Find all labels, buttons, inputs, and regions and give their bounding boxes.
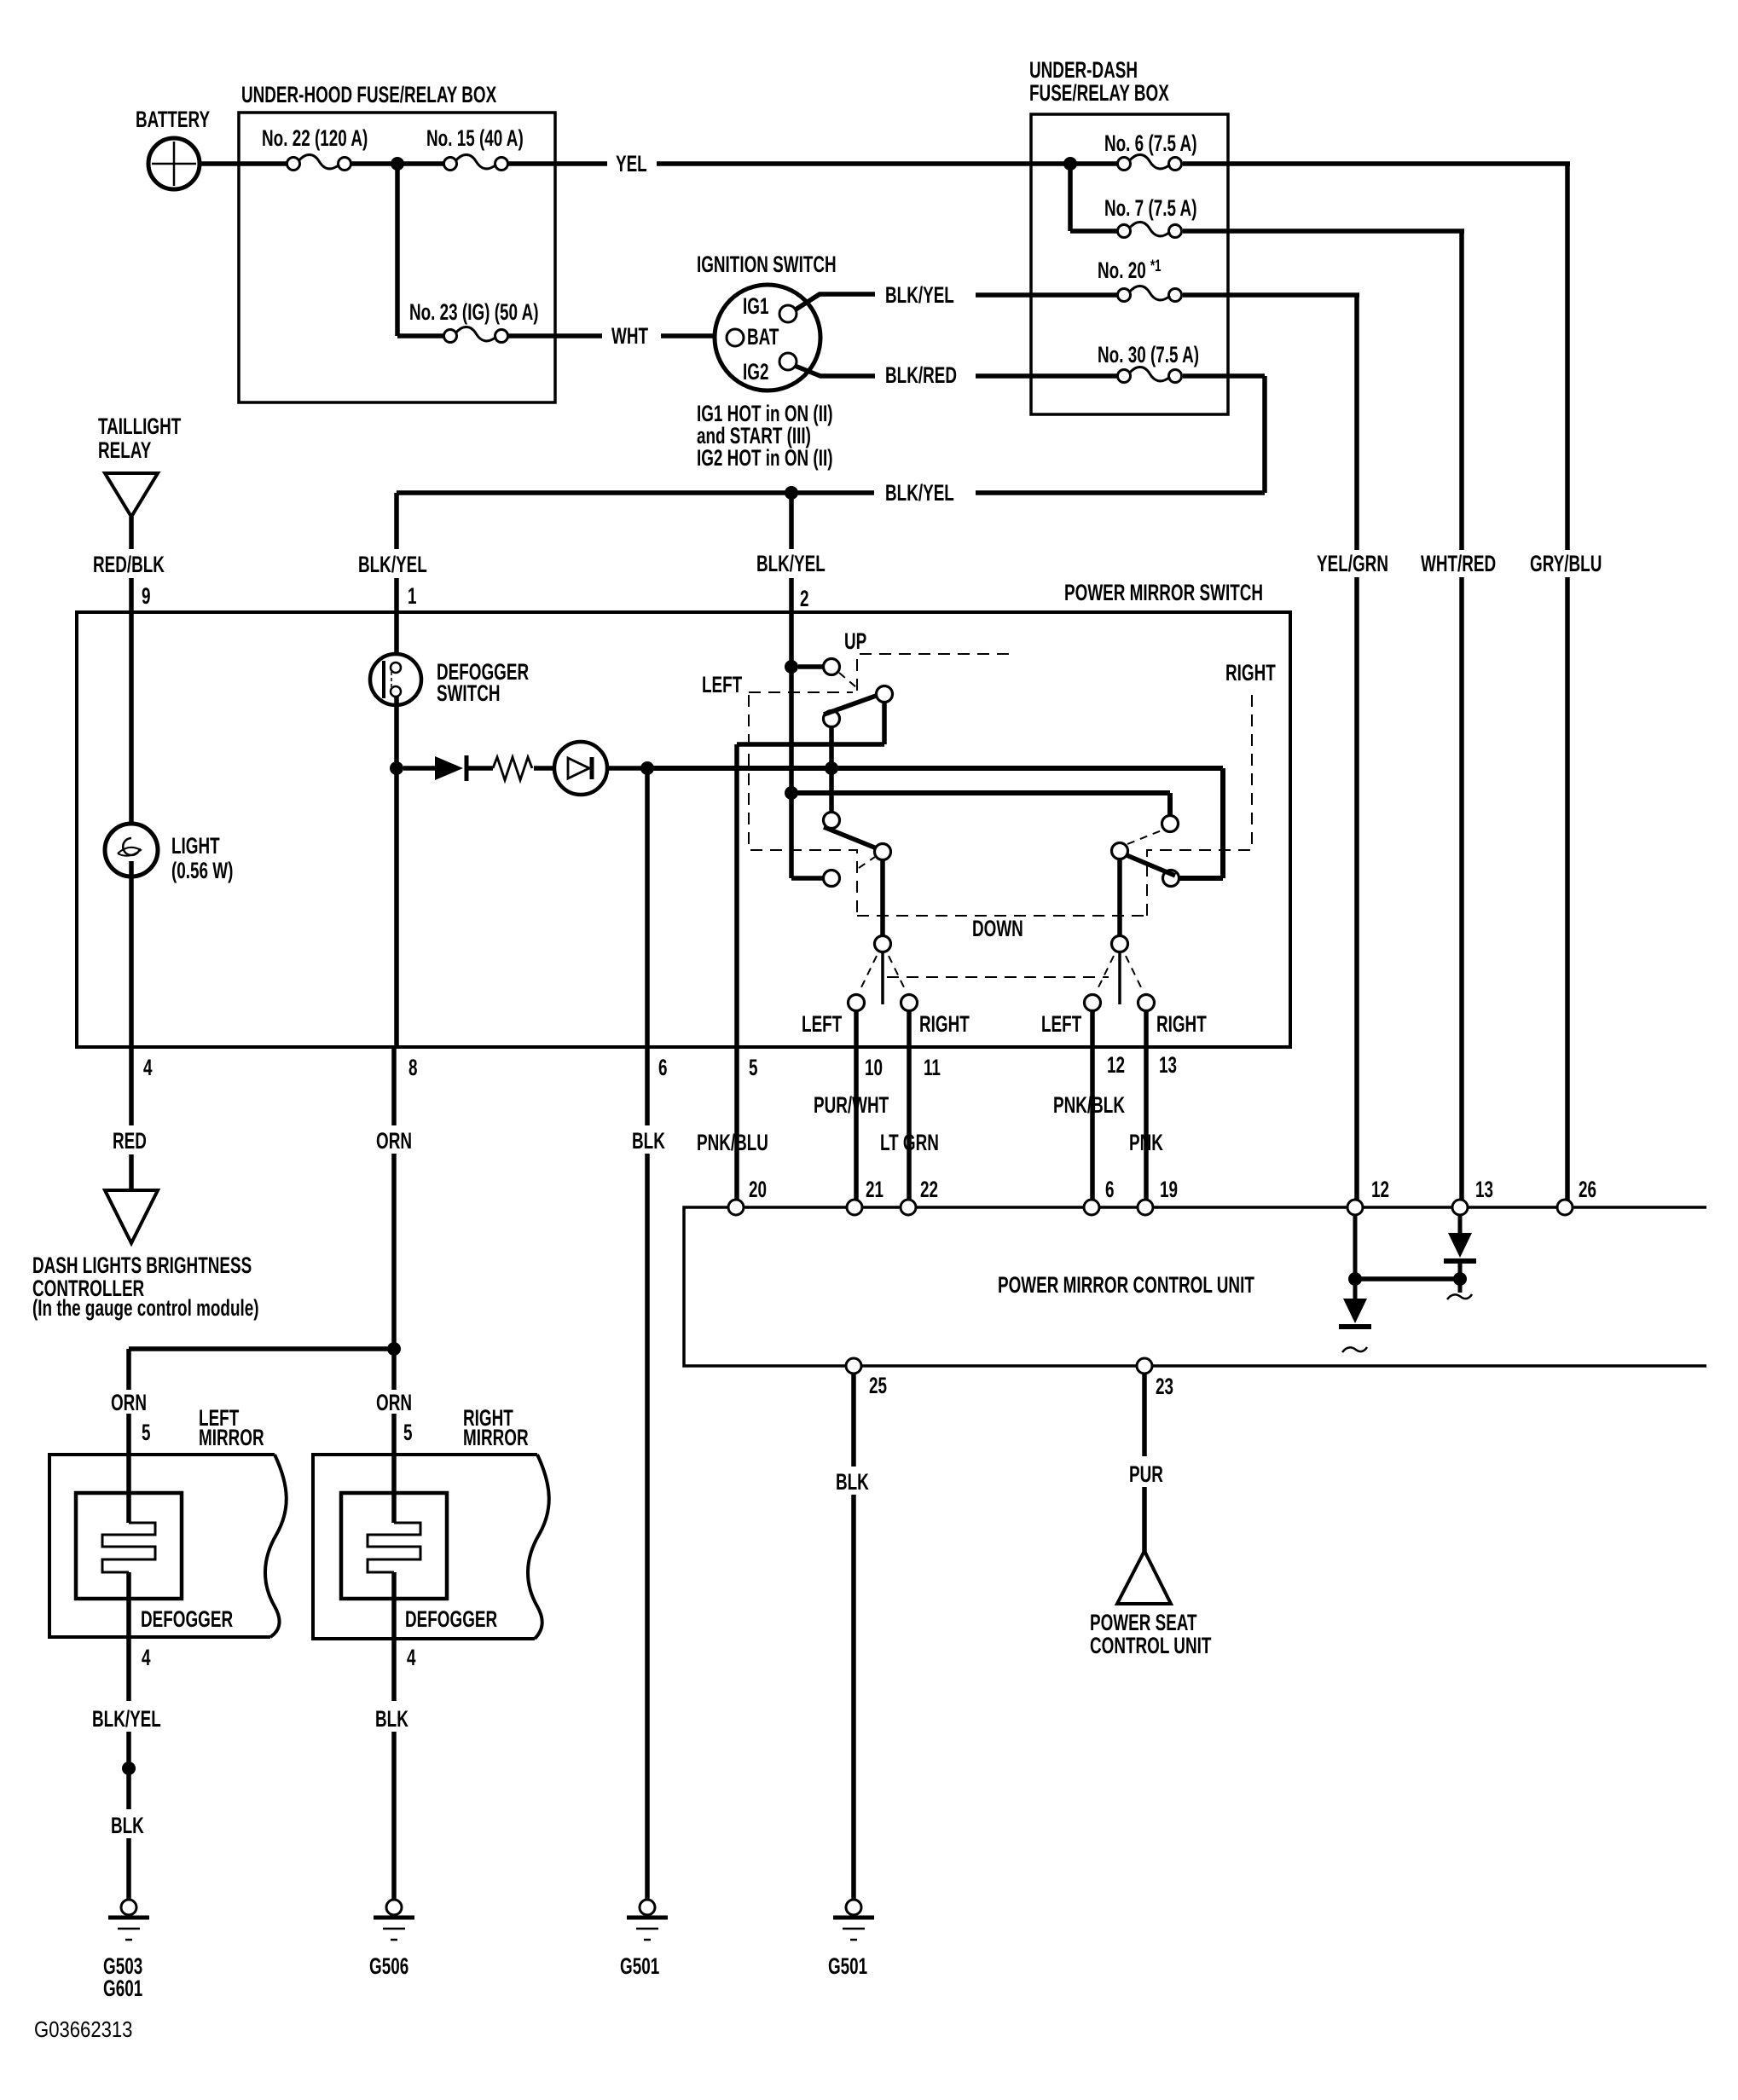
- svg-text:6: 6: [658, 1055, 668, 1080]
- svg-text:DEFOGGER: DEFOGGER: [405, 1606, 497, 1632]
- svg-text:UNDER-HOOD FUSE/RELAY BOX: UNDER-HOOD FUSE/RELAY BOX: [241, 82, 497, 107]
- svg-text:RED/BLK: RED/BLK: [93, 552, 165, 577]
- dashed DOWN box top: [857, 915, 1147, 917]
- label (0.56 W): [171, 858, 233, 883]
- label POWER SEAT: [1090, 1610, 1197, 1635]
- label PNK/BLU: [697, 1130, 768, 1155]
- left mirror box: [49, 1455, 287, 1637]
- wire YEL left segment: [508, 161, 607, 166]
- svg-text:1: 1: [408, 583, 417, 609]
- label UP: [844, 628, 866, 654]
- label WHT/RED: [1421, 551, 1496, 576]
- svg-text:PNK/BLU: PNK/BLU: [697, 1130, 768, 1155]
- contact left moving lower: [824, 813, 840, 829]
- fuse No.6 (7.5A): [1118, 155, 1182, 171]
- connector pins control unit bottom: [846, 1358, 1152, 1374]
- label LIGHT: [171, 833, 220, 859]
- wire fuse6 to GRY/BLU corner: [1183, 161, 1570, 166]
- pin 9: [142, 583, 151, 609]
- wire h2 corner to right contact: [1179, 768, 1223, 878]
- label RED: [113, 1128, 147, 1154]
- svg-text:4: 4: [407, 1645, 416, 1670]
- label IG2: [743, 359, 768, 385]
- label SWITCH sw: [437, 680, 501, 706]
- pin 8: [408, 1055, 418, 1080]
- svg-text:4: 4: [143, 1055, 153, 1080]
- wire BLK/YEL pin2 vertical: [791, 578, 825, 878]
- pin 5: [749, 1055, 758, 1080]
- svg-text:No. 30 (7.5 A): No. 30 (7.5 A): [1098, 342, 1199, 367]
- wire pin8 below box: [391, 1047, 397, 1125]
- svg-text:PUR: PUR: [1129, 1461, 1163, 1487]
- wire pin25 to ground: [851, 1495, 856, 1900]
- svg-text:19: 19: [1160, 1177, 1178, 1202]
- pin 5 right mirror: [403, 1420, 413, 1445]
- wire ORN right upper: [391, 1355, 397, 1390]
- label GRY/BLU: [1530, 551, 1602, 576]
- wire GRY/BLU vertical: [1565, 164, 1570, 1200]
- svg-text:RIGHT: RIGHT: [919, 1011, 970, 1037]
- svg-text:FUSE/RELAY BOX: FUSE/RELAY BOX: [1029, 80, 1169, 106]
- pin 10: [865, 1055, 883, 1080]
- svg-text:21: 21: [866, 1177, 883, 1202]
- label No. 22 (120 A): [262, 125, 368, 151]
- label PUR/WHT: [814, 1092, 889, 1118]
- svg-text:BLK/YEL: BLK/YEL: [358, 552, 427, 577]
- wire fuse7 to WHT/RED corner: [1183, 229, 1464, 234]
- svg-text:POWER MIRROR CONTROL UNIT: POWER MIRROR CONTROL UNIT: [998, 1272, 1254, 1298]
- wire pin6 below box: [645, 1047, 650, 1125]
- wire pin13 below box: [1144, 1047, 1149, 1200]
- wire left arm down: [880, 859, 885, 936]
- label ORN right: [376, 1390, 412, 1415]
- svg-text:12: 12: [1371, 1177, 1389, 1202]
- wire IG2 to BLK/RED: [795, 366, 875, 376]
- contact left arm lower end: [875, 844, 891, 860]
- wire RED/BLK to light: [129, 578, 134, 838]
- label BLK/RED: [885, 362, 957, 388]
- wire junction down to fuse7: [1070, 164, 1117, 231]
- pin 19: [1160, 1177, 1178, 1202]
- wire junction down to No.23: [397, 164, 443, 336]
- svg-text:BLK/YEL: BLK/YEL: [92, 1706, 161, 1732]
- fuse No.7 (7.5A): [1118, 223, 1182, 238]
- wire left mirror down a: [126, 1732, 131, 1763]
- chassis squiggle b: [1342, 1347, 1367, 1352]
- label PNK/BLK: [1053, 1092, 1125, 1118]
- splice dot left: [122, 1762, 136, 1775]
- svg-text:25: 25: [869, 1373, 887, 1398]
- dashed UP arm: [839, 673, 856, 687]
- svg-text:GRY/BLU: GRY/BLU: [1530, 551, 1602, 576]
- wire pin10 in box: [854, 1011, 859, 1046]
- ground G503/G601: [108, 1900, 149, 1940]
- svg-text:PNK/BLK: PNK/BLK: [1053, 1092, 1125, 1118]
- svg-text:BLK/YEL: BLK/YEL: [885, 282, 954, 308]
- dashed selector left legs: [861, 956, 904, 987]
- pin 12: [1107, 1052, 1125, 1078]
- svg-text:(In the gauge control module): (In the gauge control module): [32, 1295, 259, 1321]
- svg-text:BLK: BLK: [632, 1128, 665, 1154]
- wire pin23 upper: [1142, 1374, 1147, 1456]
- junction dot in under-dash box: [1063, 157, 1077, 171]
- wire pin10 below box: [854, 1047, 859, 1200]
- contact right selector: [1112, 936, 1128, 952]
- wire YEL/GRN vertical: [1354, 295, 1359, 1200]
- label No. 15 (40 A): [426, 125, 524, 151]
- svg-text:No. 15 (40 A): No. 15 (40 A): [426, 125, 524, 151]
- wire pin4 below box: [129, 1047, 134, 1125]
- svg-text:No. 23 (IG) (50 A): No. 23 (IG) (50 A): [409, 299, 539, 325]
- label IGNITION SWITCH: [697, 252, 837, 277]
- label CONTROLLER: [32, 1276, 144, 1301]
- dashed selector link: [887, 976, 1109, 978]
- wire h3 horizontal: [797, 793, 1170, 816]
- switch arm left upper: [824, 695, 878, 714]
- svg-text:LT GRN: LT GRN: [880, 1130, 939, 1155]
- wire BLK pin6 to ground: [645, 1154, 650, 1900]
- svg-text:22: 22: [920, 1177, 938, 1202]
- switch arm left lower: [824, 827, 877, 848]
- label BAT: [747, 324, 779, 350]
- svg-text:BLK/RED: BLK/RED: [885, 362, 957, 388]
- svg-text:23: 23: [1156, 1374, 1173, 1399]
- label DEFOGGER left: [141, 1606, 233, 1632]
- label IG1: [743, 293, 768, 319]
- wire BLK/RED to fuse30: [976, 373, 1117, 379]
- wire ORN left upper: [126, 1349, 131, 1390]
- label RIGHT switch: [1225, 660, 1276, 686]
- contact left moving upper: [824, 711, 840, 727]
- wire left moving contacts vertical: [829, 726, 834, 813]
- label BLK/YEL ignition: [885, 282, 954, 308]
- label No. 30 (7.5 A): [1098, 342, 1199, 367]
- label MIRROR right: [463, 1425, 529, 1450]
- fuse No.23 (IG)(50A): [444, 327, 508, 343]
- label DEFOGGER sw: [437, 659, 529, 685]
- ground G501 a: [627, 1900, 668, 1940]
- label BLK/YEL mid horizontal: [885, 480, 954, 506]
- pin 2: [800, 586, 809, 611]
- junction dot pin6: [640, 761, 654, 775]
- wire RED/BLK upper: [129, 517, 134, 549]
- pin 12 ctl: [1371, 1177, 1389, 1202]
- label RIGHT p11: [919, 1011, 970, 1037]
- wire ORN branch horizontal: [129, 1346, 394, 1351]
- dashed UP box: [857, 654, 1015, 691]
- figure id: [34, 2017, 132, 2042]
- svg-text:9: 9: [142, 583, 151, 609]
- label ORN pin8: [376, 1128, 412, 1154]
- label WHT: [611, 323, 648, 349]
- wire pin13 in box: [1144, 1011, 1149, 1046]
- power seat triangle: [1117, 1551, 1171, 1604]
- dash lights arrow: [105, 1190, 158, 1243]
- wire right arm down: [1117, 859, 1122, 936]
- svg-text:WHT/RED: WHT/RED: [1421, 551, 1496, 576]
- junction dot BLK/YEL pin2: [785, 486, 798, 500]
- label LEFT switch: [702, 672, 742, 697]
- contact right switch lower: [1163, 871, 1179, 887]
- pin 21: [866, 1177, 883, 1202]
- label No. 20 *1: [1098, 257, 1162, 283]
- svg-text:No. 22 (120 A): No. 22 (120 A): [262, 125, 368, 151]
- label UNDER-HOOD FUSE/RELAY BOX: [241, 82, 497, 107]
- label G501 b: [828, 1953, 867, 1979]
- svg-text:G601: G601: [103, 1976, 142, 2001]
- under-hood fuse/relay box: [239, 113, 555, 402]
- pin 26 ctl: [1579, 1177, 1596, 1202]
- svg-text:UNDER-DASH: UNDER-DASH: [1029, 57, 1138, 83]
- label RELAY: [98, 437, 152, 463]
- selector arm right: [1118, 952, 1121, 1004]
- label G503: [103, 1953, 142, 1979]
- svg-text:BLK/YEL: BLK/YEL: [756, 551, 826, 576]
- label ORN left: [111, 1390, 147, 1415]
- wire WHT right segment: [661, 333, 727, 338]
- svg-text:RIGHT: RIGHT: [1225, 660, 1276, 686]
- fuse No.20: [1118, 286, 1182, 302]
- svg-text:ORN: ORN: [376, 1128, 412, 1154]
- defogger switch: [370, 654, 421, 705]
- wire BLK/YEL horizontal left: [397, 490, 874, 495]
- contact pin13: [1138, 995, 1155, 1011]
- dashed right up-arm: [1127, 830, 1162, 844]
- svg-text:MIRROR: MIRROR: [199, 1425, 264, 1450]
- chassis squiggle a: [1447, 1294, 1472, 1299]
- svg-text:IG2 HOT in ON (II): IG2 HOT in ON (II): [697, 445, 833, 471]
- diode D3 pin12: [1339, 1299, 1371, 1327]
- pin 20: [749, 1177, 767, 1202]
- connector pins control unit top: [728, 1200, 1573, 1215]
- wire BLK/YEL pin1 upper: [394, 493, 399, 549]
- svg-text:WHT: WHT: [611, 323, 648, 349]
- svg-text:LEFT: LEFT: [702, 672, 742, 697]
- label POWER MIRROR CONTROL UNIT: [998, 1272, 1254, 1298]
- pin 5 left mirror: [142, 1420, 151, 1445]
- under-dash fuse/relay box: [1031, 114, 1228, 414]
- power mirror control unit box: [684, 1207, 1706, 1366]
- wire BLK/YEL to fuse20: [976, 292, 1117, 298]
- svg-text:(0.56 W): (0.56 W): [171, 858, 233, 883]
- svg-text:PUR/WHT: PUR/WHT: [814, 1092, 889, 1118]
- contact right pivot: [1112, 843, 1128, 859]
- svg-text:6: 6: [1105, 1177, 1115, 1202]
- selector arm left: [881, 952, 884, 1004]
- dashed LEFT box top: [749, 691, 853, 693]
- junction dot h3: [785, 786, 798, 800]
- wire pin11 below box: [907, 1047, 912, 1200]
- label BLK/YEL pin2: [756, 551, 826, 576]
- fuse No.15 (40A): [444, 155, 508, 171]
- wire pin5 below box: [734, 1047, 739, 1200]
- svg-text:IG1: IG1: [743, 293, 768, 319]
- svg-text:TAILLIGHT: TAILLIGHT: [98, 414, 181, 439]
- svg-text:LIGHT: LIGHT: [171, 833, 220, 859]
- label G501 a: [620, 1953, 659, 1979]
- note IG2 HOT in ON (II): [697, 445, 833, 471]
- label CONTROL UNIT ps: [1090, 1633, 1211, 1658]
- svg-text:G501: G501: [620, 1953, 659, 1979]
- svg-text:5: 5: [142, 1420, 151, 1445]
- svg-text:BAT: BAT: [747, 324, 779, 350]
- label G601: [103, 1976, 142, 2001]
- label PNK: [1129, 1130, 1163, 1155]
- pin 11: [924, 1055, 941, 1080]
- contact left arm upper end: [877, 686, 893, 703]
- svg-text:10: 10: [865, 1055, 883, 1080]
- fuse No.22 (120A): [287, 155, 351, 171]
- wire pin11 in box: [907, 1011, 912, 1046]
- svg-text:ORN: ORN: [111, 1390, 147, 1415]
- svg-text:5: 5: [749, 1055, 758, 1080]
- svg-text:RED: RED: [113, 1128, 147, 1154]
- svg-text:11: 11: [924, 1055, 941, 1080]
- label YEL: [616, 151, 647, 176]
- wire fuse20 to YEL/GRN corner: [1183, 292, 1359, 298]
- label BLK left: [111, 1813, 144, 1838]
- contact right switch upper: [1162, 816, 1179, 832]
- label LT GRN: [880, 1130, 939, 1155]
- svg-text:8: 8: [408, 1055, 418, 1080]
- wire to diode: [403, 766, 437, 771]
- wire pin1 to defogger switch: [394, 578, 399, 663]
- svg-text:RELAY: RELAY: [98, 437, 152, 463]
- taillight relay triangle: [105, 473, 158, 517]
- pin 1: [408, 583, 417, 609]
- dashed LEFT box: [749, 695, 857, 916]
- label PUR: [1129, 1461, 1163, 1487]
- wire light to pin4: [129, 861, 134, 1046]
- wire BLK/YEL pin2 upper: [789, 493, 794, 549]
- svg-text:DEFOGGER: DEFOGGER: [141, 1606, 233, 1632]
- junction dot YEL: [391, 157, 404, 171]
- contact pin11: [901, 995, 918, 1011]
- svg-text:No. 6 (7.5 A): No. 6 (7.5 A): [1104, 130, 1196, 156]
- svg-text:BLK: BLK: [111, 1813, 144, 1838]
- wire left mirror down b: [126, 1773, 131, 1809]
- svg-text:POWER SEAT: POWER SEAT: [1090, 1610, 1197, 1635]
- light bulb: [105, 824, 158, 876]
- junction dot UP contact: [785, 660, 798, 674]
- label DOWN: [972, 916, 1023, 941]
- svg-text:G03662313: G03662313: [34, 2017, 132, 2042]
- wire pin12 in box: [1090, 1011, 1095, 1046]
- ignition switch: [715, 285, 820, 390]
- wire WHT left segment: [508, 333, 602, 338]
- pin 25: [869, 1373, 887, 1398]
- svg-text:BLK: BLK: [836, 1469, 869, 1495]
- label LEFT p12: [1041, 1011, 1081, 1037]
- label No. 23 (IG) (50 A): [409, 299, 539, 325]
- label No. 6 (7.5 A): [1104, 130, 1196, 156]
- wire pin12 below box: [1090, 1047, 1095, 1200]
- svg-text:12: 12: [1107, 1052, 1125, 1078]
- wire ORN to junction: [391, 1154, 397, 1344]
- svg-text:LEFT: LEFT: [802, 1011, 842, 1037]
- label YEL/GRN: [1317, 551, 1388, 576]
- label FUSE/RELAY BOX: [1029, 80, 1169, 106]
- power mirror switch box: [77, 612, 1290, 1047]
- wire YEL into box: [1063, 161, 1117, 166]
- svg-text:POWER MIRROR SWITCH: POWER MIRROR SWITCH: [1064, 580, 1263, 605]
- junction dot diode net b: [1453, 1272, 1467, 1286]
- wire LED to junction: [607, 766, 641, 771]
- ground G506: [374, 1900, 414, 1940]
- svg-text:4: 4: [142, 1645, 151, 1670]
- wire IG1 to BLK/YEL: [796, 294, 875, 310]
- wire fuse30 down to BLK/YEL run: [976, 376, 1265, 493]
- label DEFOGGER right: [405, 1606, 497, 1632]
- label POWER MIRROR SWITCH: [1064, 580, 1263, 605]
- junction dot left switch common: [825, 761, 838, 775]
- svg-text:G506: G506: [369, 1953, 408, 1979]
- left defogger element: [76, 1455, 182, 1701]
- contact left UP fixed: [824, 659, 840, 675]
- wire to UP contact: [798, 664, 824, 669]
- resistor: [493, 757, 532, 780]
- wire WHT/RED vertical: [1459, 231, 1464, 1200]
- contact pin12: [1085, 995, 1101, 1011]
- svg-text:No. 7 (7.5 A): No. 7 (7.5 A): [1104, 195, 1196, 221]
- switch arm right: [1127, 855, 1175, 876]
- fuse No.30 (7.5A): [1118, 367, 1182, 383]
- wire YEL right segment: [657, 161, 1063, 166]
- note IG1 HOT in ON (II): [697, 401, 833, 426]
- svg-text:SWITCH: SWITCH: [437, 680, 501, 706]
- wire pin1 lower: [394, 774, 399, 1046]
- junction dot diode net a: [1348, 1272, 1362, 1286]
- svg-text:5: 5: [403, 1420, 413, 1445]
- svg-text:YEL/GRN: YEL/GRN: [1317, 551, 1388, 576]
- label LEFT p10: [802, 1011, 842, 1037]
- label RED/BLK: [93, 552, 165, 577]
- label LEFT mirror: [199, 1405, 239, 1431]
- wire defogger switch down: [394, 696, 399, 764]
- label BLK/YEL pin1: [358, 552, 427, 577]
- svg-text:2: 2: [800, 586, 809, 611]
- svg-text:UP: UP: [844, 628, 866, 654]
- wire ORN right to defogger: [391, 1414, 397, 1455]
- wire BLK pin6: [645, 774, 650, 1046]
- svg-text:PNK: PNK: [1129, 1130, 1163, 1155]
- wire battery to fuse 22: [200, 161, 287, 166]
- svg-text:MIRROR: MIRROR: [463, 1425, 529, 1450]
- svg-text:CONTROL UNIT: CONTROL UNIT: [1090, 1633, 1211, 1658]
- dashed RIGHT box: [1147, 692, 1252, 916]
- wire diode to resistor: [466, 766, 493, 771]
- svg-text:BATTERY: BATTERY: [136, 107, 210, 132]
- svg-text:YEL: YEL: [616, 151, 647, 176]
- junction dot ORN: [387, 1342, 401, 1356]
- diode D1 inline: [435, 755, 466, 781]
- label BLK pin25: [836, 1469, 869, 1495]
- label BLK pin6: [632, 1128, 665, 1154]
- wire right mirror to ground: [391, 1732, 397, 1900]
- wire pin25 upper: [851, 1374, 856, 1467]
- battery: [148, 138, 200, 189]
- contact left selector: [875, 936, 891, 952]
- ground G501 b: [833, 1900, 874, 1940]
- label gauge module note: [32, 1295, 259, 1321]
- wire fuse22 to junction: [351, 161, 391, 166]
- LED illumination: [554, 742, 607, 795]
- pin 4 left mirror: [142, 1645, 151, 1670]
- label BLK/YEL bottom: [92, 1706, 161, 1732]
- svg-text:ORN: ORN: [376, 1390, 412, 1415]
- label No. 7 (7.5 A): [1104, 195, 1196, 221]
- note and START (III): [697, 423, 811, 448]
